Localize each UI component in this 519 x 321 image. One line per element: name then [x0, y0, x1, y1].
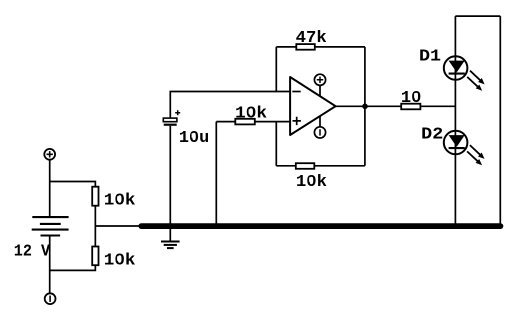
resistor R6 10: [401, 104, 420, 110]
LED D1 light arrows: [467, 71, 484, 91]
ground bus net: [141, 223, 500, 229]
battery V1 plus terminal: [44, 149, 55, 160]
resistor R4 47k: [296, 44, 315, 50]
resistor R2 10k: [92, 247, 98, 266]
wire feedback left vertical: [275, 47, 277, 92]
resistor R5 10k: [296, 163, 315, 169]
op-amp U1 inverting input marker: [292, 91, 300, 93]
node output junction: [362, 104, 368, 110]
resistor R1 10k: [92, 187, 98, 206]
wire battery plus lead: [49, 160, 51, 217]
resistor R3 10k: [235, 119, 255, 125]
wire positive feedback left vertical: [275, 122, 277, 166]
wire LED chain vertical: [454, 16, 456, 224]
wire inverting input net: [170, 92, 290, 119]
wire LED rail top: [455, 15, 500, 17]
LED D2: [444, 131, 468, 155]
wire C1 to bus: [169, 126, 171, 224]
wire top feedback right segment: [315, 46, 365, 48]
battery V1: [32, 217, 69, 235]
svg-text:10: 10: [401, 88, 422, 107]
wire bottom feedback right segment: [314, 165, 365, 167]
svg-text:12 V: 12 V: [14, 242, 50, 261]
wire R3 to non-inverting input: [255, 121, 290, 123]
wire ground stub: [169, 228, 171, 241]
LED D2 light arrows: [467, 145, 484, 165]
svg-text:D2: D2: [421, 125, 443, 144]
wire battery minus lead: [49, 236, 51, 294]
battery V1 minus terminal: [45, 293, 56, 304]
wire bottom branch to divider: [50, 265, 96, 270]
capacitor C1 10u: [163, 118, 177, 125]
wire top feedback left segment: [276, 46, 296, 48]
op-amp U1 positive supply terminal: [314, 74, 325, 96]
op-amp U1: [290, 77, 336, 135]
wire midpoint to R2: [94, 226, 96, 247]
wire R1 to midpoint: [94, 206, 96, 226]
svg-text:47k: 47k: [296, 28, 327, 47]
op-amp U1 non-inverting input marker: [293, 117, 301, 125]
wire bottom feedback left segment: [276, 165, 296, 167]
wire midpoint to bus: [95, 225, 142, 227]
wire R6 to LED chain: [420, 105, 455, 107]
wire right return vertical: [499, 16, 501, 224]
wire top branch to divider: [50, 182, 96, 187]
op-amp U1 negative supply terminal: [314, 116, 325, 138]
wire feedback right vertical: [364, 47, 366, 166]
wire input to R3: [216, 121, 235, 123]
LED D1: [444, 56, 468, 80]
wire input drop to bus: [215, 122, 217, 224]
zero glyph dot patches: [117, 93, 418, 260]
capacitor C1 plus polarity mark: [175, 110, 180, 115]
ground: [161, 242, 180, 249]
svg-text:D1: D1: [419, 46, 441, 65]
wire op-amp output: [336, 105, 402, 107]
